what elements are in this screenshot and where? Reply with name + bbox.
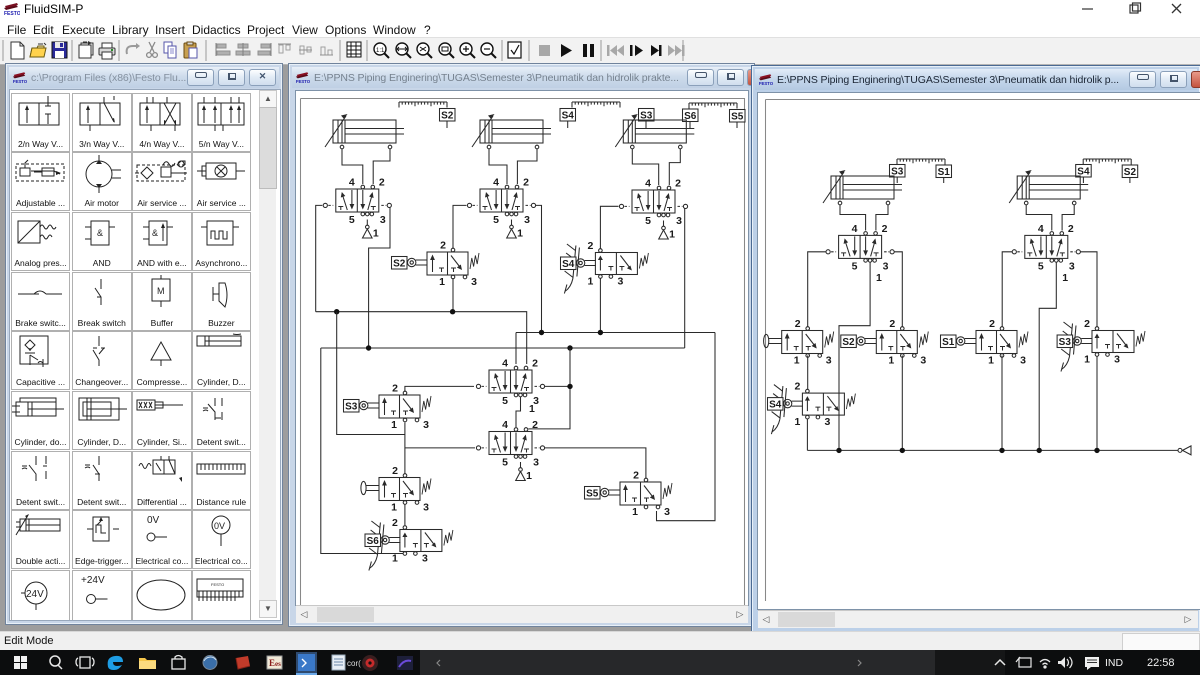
undo	[127, 43, 140, 54]
powershell active	[296, 652, 317, 675]
cylinder 2A	[823, 170, 902, 205]
back-roller valve S6	[392, 517, 453, 565]
roller valve S2	[427, 240, 479, 289]
roller valve S2	[876, 318, 928, 367]
tray: wifi	[1040, 660, 1050, 669]
svg-text:&: &	[97, 228, 103, 238]
align middle	[299, 46, 312, 54]
wire VB port 1 supply	[1039, 262, 1056, 450]
search	[50, 656, 62, 669]
wire PA port 1 to S4 port 2	[807, 356, 809, 390]
drawing frame	[766, 100, 1200, 602]
wire V4 port1 to V5 port 4	[516, 397, 521, 428]
svg-text:FESTO: FESTO	[4, 11, 20, 16]
align bottom	[320, 47, 333, 55]
svg-text:S4: S4	[562, 111, 575, 122]
junction bus1/S3-branch	[334, 309, 339, 314]
zoom fit	[396, 43, 411, 58]
tray: chat	[1085, 657, 1099, 670]
wire VB right pilot down	[1081, 252, 1098, 327]
distance ruler S3/S1	[897, 159, 945, 165]
wire VA right pilot down	[894, 252, 902, 327]
new	[11, 42, 24, 59]
wire S2 port 1 to bus 1	[452, 278, 454, 312]
wire S2 port 2 to V2 left pilot	[453, 205, 467, 248]
folder	[139, 658, 156, 669]
zoom 1:1	[374, 43, 389, 58]
label box S5	[585, 487, 601, 500]
scrollbar	[259, 90, 276, 618]
EES icon	[267, 656, 282, 669]
label S3	[890, 165, 906, 178]
wire cylB port B to valve port 2	[1062, 205, 1074, 231]
wall S6	[369, 521, 384, 571]
wire S3 port 2 to V4 left pilot	[405, 386, 474, 391]
grid	[347, 42, 361, 57]
svg-text:1: 1	[1062, 272, 1068, 284]
roller actuator S3	[1073, 337, 1093, 345]
exhaust V2 port 1	[507, 220, 523, 240]
align center v	[236, 43, 250, 56]
roller valve S1	[976, 318, 1028, 367]
label S1	[936, 165, 952, 178]
label S6	[683, 109, 699, 122]
junction S1 supply	[999, 448, 1004, 453]
label S3	[639, 109, 655, 122]
svg-text:S3: S3	[345, 402, 358, 413]
label box S2	[841, 335, 857, 348]
to end	[651, 45, 662, 56]
wire cyl2 port B to valve V2 port 2	[517, 149, 537, 184]
roller valve S3	[379, 383, 431, 432]
wire S1 port 1 to bus	[1001, 356, 1003, 451]
roller actuator S4	[576, 259, 596, 267]
cylinder 1B	[472, 114, 551, 149]
svg-text:M: M	[157, 286, 165, 296]
red book	[236, 656, 250, 669]
browser circle	[203, 656, 217, 670]
svg-text:1: 1	[876, 272, 882, 284]
air source	[1178, 446, 1191, 455]
5/2-way valve VA	[826, 223, 894, 273]
svg-text:FESTO: FESTO	[759, 81, 773, 86]
distance ruler S6/S5	[689, 103, 737, 109]
label box S2	[392, 257, 408, 270]
roller actuator S6	[381, 536, 401, 544]
junction VA supply	[836, 448, 841, 453]
wire cyl2 port A to valve V2 port 4	[489, 149, 507, 184]
svg-text:S4: S4	[562, 259, 575, 270]
zoom rect	[439, 43, 454, 58]
label S4	[1076, 165, 1092, 178]
zoom out	[481, 43, 496, 58]
wire plunger port 1 to S6 port 2	[404, 505, 406, 526]
roller valve S5	[620, 470, 672, 519]
align left	[216, 43, 230, 56]
label box S6	[365, 534, 381, 547]
junction S3 supply	[1094, 448, 1099, 453]
copy	[164, 42, 176, 58]
wire S3 port 1 to bus	[1096, 357, 1098, 451]
wire cylA port B to valve port 2	[876, 205, 888, 231]
svg-text:FESTO: FESTO	[13, 79, 27, 84]
wire cyl3 port A to valve V3 port 4	[632, 149, 658, 185]
edge	[108, 656, 123, 670]
wire V4 right pilot chain	[528, 348, 570, 429]
roller actuator S2	[408, 258, 428, 266]
align top	[278, 44, 291, 53]
svg-text:S4: S4	[769, 400, 782, 411]
junction bus3/V2 pilot	[539, 330, 544, 335]
back-roller valve S3	[1084, 318, 1145, 366]
tray: speaker	[1058, 657, 1072, 668]
wire VA port 1 supply	[839, 262, 870, 450]
svg-text:S1: S1	[938, 167, 951, 178]
svg-text:+24V: +24V	[81, 575, 105, 586]
wire V5 left pilot to chain	[405, 447, 475, 449]
open	[30, 43, 46, 57]
align right	[258, 43, 271, 56]
window controls	[1060, 0, 1200, 18]
svg-text:S2: S2	[1124, 167, 1137, 178]
cylinder 1A	[325, 114, 404, 149]
roller actuator S4	[783, 399, 803, 407]
svg-text:S2: S2	[393, 259, 406, 270]
wire bus2 left to S6 port 1	[321, 348, 405, 554]
wire V5 right pilot to S5 port 2	[545, 448, 646, 480]
svg-text:0V: 0V	[147, 515, 160, 526]
label box S4	[561, 257, 577, 270]
notepad window + label	[332, 655, 361, 670]
svg-text:S2: S2	[842, 337, 855, 348]
back-roller valve S4	[794, 381, 855, 429]
pause	[583, 44, 594, 57]
dark purple icon	[397, 656, 413, 670]
cylinder 2B	[1009, 170, 1088, 205]
task view	[76, 657, 94, 668]
5/2-way valve V3	[619, 178, 687, 228]
wire cyl1 port B to valve V1 port 2	[373, 149, 390, 184]
svg-text:FESTO: FESTO	[296, 79, 310, 84]
tray: tablet/pen	[1016, 657, 1031, 667]
label S2	[1122, 165, 1138, 178]
junction bus2/V5 chain	[567, 345, 572, 350]
play	[561, 44, 572, 57]
junction S2 supply	[900, 448, 905, 453]
label S4	[560, 109, 576, 122]
roller actuator S1	[957, 337, 977, 345]
label S5	[730, 110, 746, 123]
plunger valve PB	[379, 465, 431, 514]
distance ruler S4/S3	[572, 102, 620, 108]
svg-text:S6: S6	[367, 536, 380, 547]
tray: chevron up	[995, 660, 1005, 665]
wire S4 port 1 to bus 3	[599, 279, 601, 333]
junction bus3/S4 supply	[598, 330, 603, 335]
distance ruler S4/S2	[1083, 159, 1131, 165]
back-roller valve S4	[587, 240, 648, 288]
label box S3	[344, 400, 360, 413]
chevrons on band	[437, 660, 440, 666]
svg-text:0V: 0V	[214, 521, 225, 531]
wall S4	[771, 385, 786, 435]
svg-text:22:58: 22:58	[1147, 657, 1175, 669]
stop	[539, 45, 550, 56]
svg-text:S5: S5	[731, 112, 744, 123]
red cd icon	[362, 655, 378, 671]
5/2-way valve V5	[476, 419, 544, 469]
cylinder 1C	[615, 114, 694, 149]
label box S1	[941, 335, 957, 348]
bus 3	[516, 333, 715, 365]
5/2-way valve V1	[323, 177, 391, 227]
step fwd	[630, 45, 643, 56]
wire cyl3 port B to valve V3 port 2	[669, 149, 680, 185]
svg-text:&: &	[152, 228, 158, 238]
exhaust V1 port 1	[363, 220, 379, 240]
svg-text:S5: S5	[586, 489, 599, 500]
wire cylA port A to valve port 4	[840, 205, 866, 231]
paste	[184, 42, 197, 58]
check	[508, 42, 521, 58]
wire S2 port 1 to bus	[901, 356, 903, 451]
svg-text:24V: 24V	[26, 589, 44, 600]
roller actuator S5	[601, 488, 621, 496]
new window	[79, 41, 93, 58]
wire V3 right pilot to bus 2 end	[684, 209, 686, 349]
exhaust V3 port 1	[659, 221, 675, 241]
wire VA left pilot down	[808, 252, 826, 327]
5/2-way valve V4	[476, 358, 544, 408]
5/2-way valve V2	[467, 177, 535, 227]
roller actuator S3	[360, 401, 380, 409]
label S2	[440, 109, 456, 122]
junction bus2/V1 pilot	[366, 345, 371, 350]
cut	[147, 42, 158, 57]
wire S4 port 1 to bus	[806, 419, 808, 450]
svg-text:1: 1	[529, 403, 535, 415]
roller actuator S2	[857, 337, 877, 345]
junction bus1/S2 supply	[450, 309, 455, 314]
supply bus	[807, 449, 1178, 451]
5/2-way valve VB	[1012, 223, 1080, 273]
ffwd	[668, 45, 685, 56]
exhaust V5 port 1	[516, 462, 532, 482]
junction VB supply	[1037, 448, 1042, 453]
plunger actuator	[361, 481, 379, 494]
svg-text:Ees: Ees	[269, 658, 281, 668]
bus 1	[316, 312, 527, 364]
wire V1 right pilot to bus 2	[369, 208, 390, 348]
wire VB left pilot down	[1002, 252, 1012, 327]
print	[99, 43, 115, 59]
svg-text:IND: IND	[1105, 657, 1124, 669]
svg-text:S1: S1	[942, 337, 955, 348]
wire S4 port 2 to V3 left pilot	[600, 206, 618, 248]
wire V1 left pilot to bus 1	[316, 205, 323, 311]
wall S4	[564, 244, 579, 294]
zoom sel	[417, 43, 432, 58]
store	[172, 656, 185, 670]
svg-text:S2: S2	[441, 111, 454, 122]
distance ruler S2	[399, 102, 447, 108]
wall S3	[1061, 322, 1076, 372]
plunger valve PA	[782, 318, 834, 367]
wire cyl1 port A to valve V1 port 4	[342, 149, 363, 184]
save	[52, 42, 67, 58]
wire V2 right pilot to bus 3	[536, 205, 542, 332]
svg-text:FESTO: FESTO	[211, 582, 224, 587]
label box S3	[1057, 335, 1073, 348]
label box S4	[768, 398, 784, 411]
svg-text:1:1: 1:1	[376, 48, 385, 54]
start	[14, 656, 27, 669]
svg-text:cor(: cor(	[347, 659, 361, 668]
drawing frame	[301, 99, 745, 608]
plunger actuator PA	[764, 334, 782, 347]
rewind	[607, 45, 624, 56]
chain wire S3 port1 / plunger port2	[404, 423, 406, 474]
wire cylB port A to valve port 4	[1026, 205, 1052, 231]
wire bus3 right to S5 port 3	[657, 333, 716, 521]
svg-text:S3: S3	[1059, 337, 1072, 348]
zoom in	[460, 43, 475, 58]
wire branch bus1 to S3 port 1	[337, 312, 405, 435]
bus 2	[321, 347, 685, 349]
